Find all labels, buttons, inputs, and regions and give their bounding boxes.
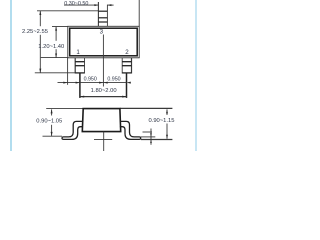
svg-text:0.90~1.15: 0.90~1.15 <box>149 118 175 124</box>
svg-text:1.20~1.40: 1.20~1.40 <box>38 44 64 50</box>
svg-text:2.25~2.55: 2.25~2.55 <box>22 29 48 35</box>
svg-text:0.90~1.05: 0.90~1.05 <box>36 119 62 125</box>
svg-text:2: 2 <box>125 49 129 56</box>
svg-text:0.30~0.50: 0.30~0.50 <box>64 1 88 7</box>
svg-text:3: 3 <box>100 28 104 35</box>
svg-text:0.950: 0.950 <box>107 77 120 83</box>
svg-text:1.80~2.00: 1.80~2.00 <box>91 88 117 94</box>
svg-text:0.950: 0.950 <box>84 77 97 83</box>
svg-text:1: 1 <box>76 49 80 56</box>
